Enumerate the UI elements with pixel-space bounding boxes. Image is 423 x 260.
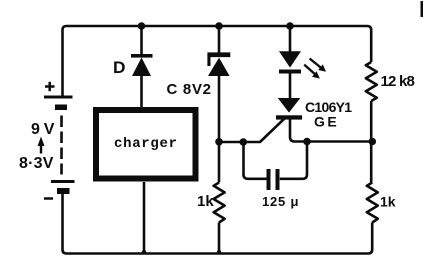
svg-text:1k: 1k: [380, 194, 396, 210]
svg-text:C 8V2: C 8V2: [167, 81, 212, 98]
svg-text:1k: 1k: [197, 193, 214, 210]
svg-text:125 μ: 125 μ: [262, 194, 299, 209]
svg-text:charger: charger: [114, 136, 178, 152]
svg-text:D: D: [113, 58, 126, 77]
svg-text:GE: GE: [314, 114, 339, 130]
svg-text:8·3V: 8·3V: [19, 155, 54, 172]
svg-text:12 k8: 12 k8: [381, 73, 415, 90]
svg-text:9 V: 9 V: [31, 121, 55, 138]
